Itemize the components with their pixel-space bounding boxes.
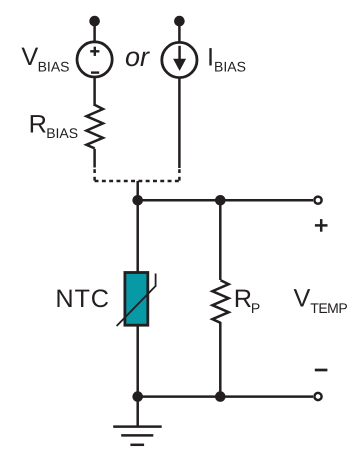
minus sign inside V_BIAS xyxy=(91,71,99,73)
junction dot mid rail NTC branch xyxy=(132,195,143,206)
plus sign inside V_BIAS xyxy=(90,47,99,56)
junction dot mid rail R_P branch xyxy=(215,195,226,206)
svg-text:P: P xyxy=(251,300,260,316)
minus label at output xyxy=(315,369,328,372)
dashed wire right vertical xyxy=(178,169,181,180)
svg-text:R: R xyxy=(234,285,252,313)
svg-text:BIAS: BIAS xyxy=(46,125,78,141)
thermistor NTC body xyxy=(125,273,148,326)
ground symbol xyxy=(113,427,162,445)
wire from V_BIAS source to R_BIAS xyxy=(93,78,96,106)
plus label at output xyxy=(315,219,328,232)
dashed wire horizontal xyxy=(95,180,179,183)
wire mid rail to NTC xyxy=(136,200,139,272)
wire from top dot to I_BIAS source xyxy=(178,21,181,42)
svg-text:V: V xyxy=(294,284,311,312)
wire from I_BIAS source down to dashed junction xyxy=(178,78,181,168)
junction dot bottom rail NTC branch xyxy=(132,391,143,402)
wire R_P to bottom rail xyxy=(219,322,222,397)
svg-text:NTC: NTC xyxy=(55,285,109,313)
junction dot bottom rail R_P branch xyxy=(215,391,226,402)
svg-text:or: or xyxy=(125,42,150,72)
ground stub wire xyxy=(136,397,139,427)
svg-text:I: I xyxy=(207,44,214,72)
voltage source V_BIAS circle xyxy=(77,42,112,77)
thermistor NTC diagonal stroke xyxy=(117,274,156,327)
svg-text:BIAS: BIAS xyxy=(38,59,70,75)
wire from top dot to V_BIAS source xyxy=(93,21,96,42)
bottom rail wire xyxy=(138,395,313,398)
wire mid rail to R_P xyxy=(219,200,222,280)
open terminal + output xyxy=(314,197,321,204)
wire from dashed junction to mid rail xyxy=(136,181,139,200)
svg-text:R: R xyxy=(29,111,47,139)
svg-text:BIAS: BIAS xyxy=(214,59,246,75)
terminal dot top of I_BIAS xyxy=(174,16,185,27)
current source I_BIAS circle xyxy=(162,42,197,77)
wire NTC to bottom rail xyxy=(136,326,139,397)
resistor R_P zigzag xyxy=(212,280,228,323)
svg-text:TEMP: TEMP xyxy=(310,300,347,316)
svg-text:V: V xyxy=(21,43,38,71)
resistor R_BIAS zigzag xyxy=(86,105,103,148)
arrow inside I_BIAS xyxy=(173,46,186,71)
open terminal - output xyxy=(314,393,321,400)
mid rail wire xyxy=(138,199,313,202)
terminal dot top of V_BIAS xyxy=(89,16,100,27)
dashed wire left vertical xyxy=(93,169,96,180)
wire below R_BIAS xyxy=(93,149,96,168)
